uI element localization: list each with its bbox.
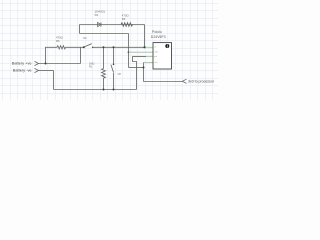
wire off switch bottom: [113, 73, 115, 90]
svg-text:D1: D1: [95, 13, 99, 17]
regulator module pin labels: [154, 46, 158, 64]
svg-text:Off: Off: [118, 73, 122, 76]
svg-text:gnd: gnd: [154, 56, 157, 58]
svg-text:vin: vin: [154, 46, 156, 48]
resistor R4 zigzag: [121, 23, 133, 27]
pin stub SHDN: [129, 51, 154, 53]
resistor R6 zigzag: [57, 46, 66, 49]
wire 3v3 output run: [144, 81, 183, 83]
svg-text:Pololu: Pololu: [152, 30, 162, 34]
wire bleed resistor top: [103, 47, 105, 68]
regulator module U1 body: [153, 43, 172, 69]
svg-text:shdn: shdn: [154, 52, 158, 54]
pin stub VIN: [146, 46, 154, 48]
svg-text:3v3 to processor: 3v3 to processor: [188, 80, 215, 84]
wire R6 right to switch: [66, 46, 84, 48]
junction dot pin2 wire: [128, 51, 130, 53]
wire bleed resistor bottom: [103, 79, 105, 90]
svg-text:R6: R6: [56, 39, 60, 43]
wire battery +ve horizontal: [39, 63, 81, 65]
wire off switch top: [113, 47, 115, 64]
wire battery +ve riser to switch node: [80, 47, 82, 63]
junction dot bleed top: [103, 46, 105, 48]
pin stub VOUT: [144, 61, 154, 63]
resistor R5 labels: [89, 63, 94, 69]
svg-text:On: On: [83, 36, 87, 40]
wire VOUT down: [143, 62, 145, 81]
resistor R5 bleed zigzag vertical: [102, 69, 106, 79]
junction dot feedback VOUT: [143, 67, 145, 69]
switch On blade: [84, 44, 92, 47]
pin stub GND: [146, 56, 153, 58]
wire switch to VIN node: [93, 46, 146, 48]
connector 3v3 chevron: [182, 79, 186, 83]
wire riser battery+ to R6 left: [46, 47, 58, 63]
switch Off contacts: [113, 64, 115, 66]
wire feedback to VOUT node: [129, 67, 144, 69]
svg-text:Battery -ve: Battery -ve: [13, 68, 32, 73]
wire feedback left drop: [79, 25, 81, 34]
junction dot VIN node: [143, 46, 145, 48]
wire feedback return run: [80, 33, 129, 35]
junction dot off switch top: [113, 46, 115, 48]
connector battery +ve chevron: [35, 61, 39, 65]
wire battery -ve horizontal: [39, 70, 54, 72]
connector battery -ve chevron: [35, 68, 39, 72]
wire R4 to VIN drop: [144, 25, 146, 48]
junction dot off switch bottom: [113, 89, 115, 91]
svg-text:vout: vout: [154, 61, 158, 64]
svg-text:Battery +ve: Battery +ve: [12, 61, 32, 66]
resistor R4 labels: [122, 13, 129, 21]
svg-text:D24V5F3: D24V5F3: [151, 35, 166, 39]
wire ground rail up to module GND pin: [133, 57, 147, 90]
switch On contacts: [83, 46, 85, 48]
resistor R6 labels: [56, 36, 63, 44]
svg-text:R4: R4: [122, 17, 126, 21]
wire battery -ve down riser: [53, 71, 55, 90]
junction dot battery+ split: [45, 63, 47, 65]
wire feedback down crossing: [128, 34, 130, 68]
regulator module power dot: [165, 44, 169, 48]
regulator module name labels: [151, 30, 166, 39]
diode D1 labels: [95, 10, 106, 18]
junction dot bleed bottom: [103, 89, 105, 91]
wire top feedback branch with D1 R4: [80, 24, 145, 26]
wire bottom ground rail: [54, 89, 137, 91]
diode D1: [98, 23, 101, 27]
switch Off blade: [111, 65, 114, 73]
